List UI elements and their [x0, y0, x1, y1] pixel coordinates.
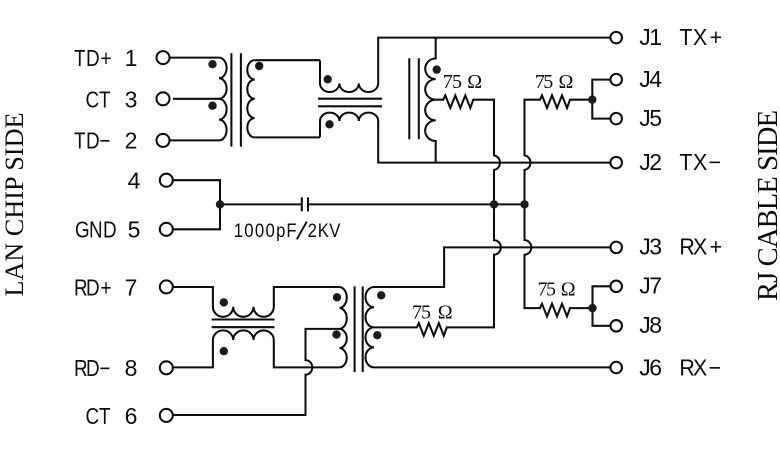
svg-text:75: 75	[538, 279, 557, 301]
transformer T3 secondary winding	[366, 287, 375, 367]
capacitor label slash	[297, 222, 307, 240]
svg-text:TX−: TX−	[679, 149, 721, 175]
svg-text:8: 8	[125, 355, 138, 381]
phase dot T3 primary top	[333, 293, 341, 301]
svg-text:2: 2	[649, 149, 662, 175]
junction node J4-J5	[588, 95, 596, 103]
svg-text:TX+: TX+	[679, 24, 722, 50]
choke L1 top winding and J1 line	[320, 38, 610, 92]
svg-text:CT: CT	[86, 405, 111, 430]
phase dot autotransformer T2	[433, 65, 441, 73]
phase dot T1 primary bottom	[208, 102, 216, 110]
choke L1 core	[318, 99, 382, 107]
junction node J7-J8	[588, 304, 596, 312]
wire T3 secondary bottom to J6	[374, 366, 610, 368]
svg-text:2KV: 2KV	[308, 220, 341, 241]
pin 8 terminal	[160, 361, 173, 374]
J4 terminal	[610, 74, 622, 86]
wire pin3 to T1 primary tap	[173, 98, 219, 100]
wire pin1 to T1 primary	[170, 57, 219, 59]
svg-text:RD+: RD+	[74, 276, 112, 301]
J5 terminal	[610, 113, 622, 125]
svg-text:2: 2	[125, 128, 138, 154]
svg-text:GND: GND	[75, 218, 117, 243]
capacitor C1 plates	[302, 197, 308, 211]
svg-text:4: 4	[649, 66, 662, 92]
svg-text:TD+: TD+	[74, 46, 112, 71]
pin 7 terminal	[160, 280, 173, 293]
autotransformer T2 winding	[425, 38, 436, 163]
resistor R1 75ohm and rail to node	[374, 95, 501, 335]
J7 terminal	[610, 281, 622, 293]
svg-text:1000pF: 1000pF	[234, 220, 297, 241]
choke L1 bottom winding and J2 line	[320, 113, 610, 163]
svg-text:75: 75	[443, 71, 462, 93]
svg-text:1: 1	[649, 24, 662, 50]
wire pins 4 and 5	[173, 180, 220, 229]
transformer T1 primary winding	[219, 58, 227, 141]
wire J7 J8 connector	[593, 286, 611, 326]
pin 4 terminal	[160, 174, 173, 187]
phase dot choke L2 top	[220, 298, 228, 306]
wire J4 J5 connector	[592, 80, 610, 119]
transformer T3 primary winding	[340, 287, 347, 367]
autotransformer T2 core	[409, 58, 419, 139]
svg-text:Ω: Ω	[467, 71, 482, 93]
svg-text:Ω: Ω	[559, 71, 574, 93]
pin 2 terminal	[157, 134, 170, 147]
svg-text:RD−: RD−	[74, 356, 110, 381]
svg-text:6: 6	[649, 354, 662, 380]
svg-text:CT: CT	[86, 88, 111, 113]
phase dot choke L1 bottom	[325, 120, 333, 128]
svg-text:LAN CHIP SIDE: LAN CHIP SIDE	[0, 113, 29, 297]
svg-text:75: 75	[412, 302, 431, 324]
resistor R2 75ohm with rail and resistor R4 75ohm	[525, 95, 593, 316]
wire T3 secondary top to J3	[374, 247, 610, 287]
wire pin2 to T1 primary	[170, 139, 219, 141]
J1 terminal	[610, 32, 622, 44]
choke L2 top winding	[173, 287, 340, 317]
wire T1 secondary top to choke L1	[255, 59, 320, 61]
phase dot T3 secondary bottom	[373, 331, 381, 339]
pin 3 terminal	[157, 92, 170, 105]
transformer T1 secondary winding	[247, 60, 254, 137]
J6 terminal	[610, 362, 622, 374]
J2 terminal	[610, 157, 622, 169]
pin 5 terminal	[160, 223, 173, 236]
choke L2 core	[212, 320, 275, 328]
svg-text:5: 5	[128, 217, 141, 243]
phase dot T1 primary top	[208, 60, 216, 68]
phase dot choke L1 top	[324, 75, 332, 83]
svg-text:4: 4	[128, 168, 141, 194]
junction node rail1-ground	[490, 200, 498, 208]
svg-text:3: 3	[125, 86, 138, 112]
svg-text:7: 7	[649, 273, 662, 299]
junction node pins 4-5	[216, 200, 224, 208]
pin 6 terminal	[160, 409, 173, 422]
phase dot T3 secondary top	[377, 291, 385, 299]
transformer T3 core	[355, 286, 363, 372]
svg-text:Ω: Ω	[438, 302, 453, 324]
svg-text:7: 7	[125, 275, 138, 301]
wire ground line to capacitor	[220, 203, 302, 205]
svg-text:1: 1	[125, 45, 138, 71]
svg-text:RJ CABLE SIDE: RJ CABLE SIDE	[753, 110, 780, 301]
wire pin6 to T3 primary tap with hop	[173, 329, 340, 415]
svg-text:RX−: RX−	[679, 355, 721, 381]
svg-text:5: 5	[649, 105, 662, 131]
transformer T1 core	[231, 53, 241, 146]
wire capacitor to termination rails	[308, 203, 525, 205]
pin 1 terminal	[157, 51, 170, 64]
J8 terminal	[610, 320, 622, 332]
svg-text:3: 3	[649, 234, 662, 260]
svg-text:75: 75	[535, 71, 553, 93]
junction node rail2-ground	[520, 200, 528, 208]
svg-text:TD−: TD−	[74, 129, 110, 154]
choke L2 bottom winding	[173, 330, 340, 367]
wire T1 secondary bottom to choke L1	[255, 136, 320, 138]
svg-text:Ω: Ω	[561, 279, 576, 301]
svg-text:RX+: RX+	[679, 234, 722, 260]
phase dot T3 primary bottom	[332, 330, 340, 338]
phase dot T1 secondary	[255, 62, 263, 70]
phase dot choke L2 bottom	[220, 347, 228, 355]
svg-text:8: 8	[649, 312, 662, 338]
svg-text:6: 6	[125, 403, 138, 429]
J3 terminal	[610, 242, 622, 254]
